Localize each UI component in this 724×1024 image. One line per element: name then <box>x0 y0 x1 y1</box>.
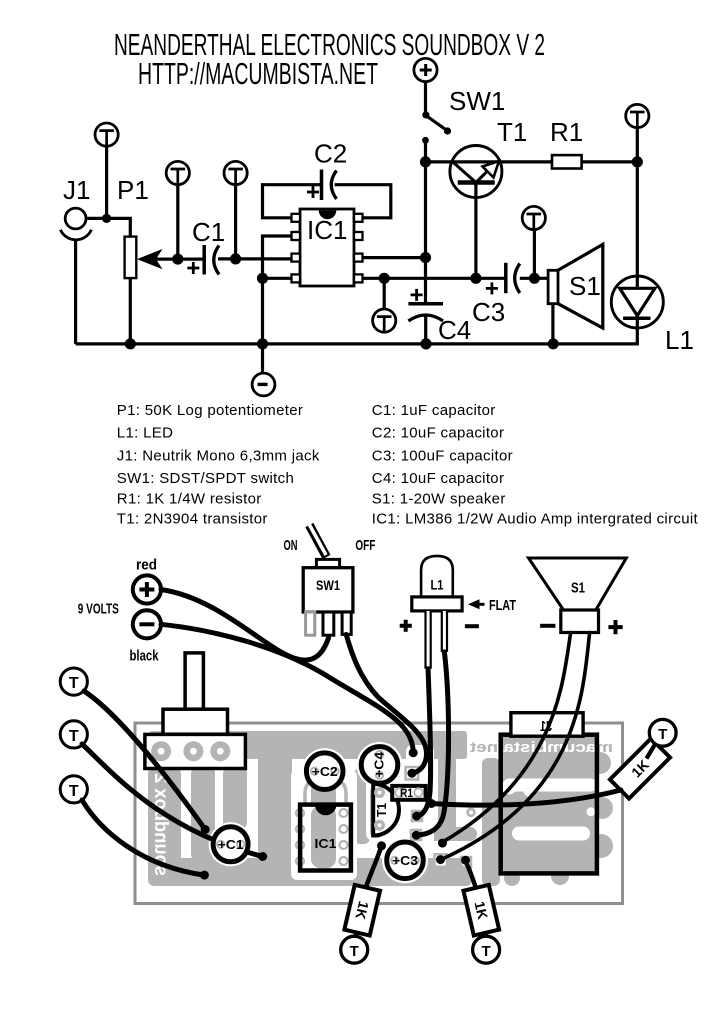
svg-text:T: T <box>69 728 79 745</box>
svg-text:R1: 1K 1/4W resistor: R1: 1K 1/4W resistor <box>117 491 262 508</box>
svg-text:OFF: OFF <box>355 537 375 554</box>
svg-text:C2: C2 <box>314 139 347 169</box>
svg-text:L1: L1 <box>665 325 694 355</box>
svg-text:SW1: SW1 <box>449 86 505 116</box>
svg-text:T: T <box>69 783 79 800</box>
svg-text:+C4: +C4 <box>372 751 387 778</box>
svg-text:T: T <box>350 943 359 960</box>
svg-text:P1: P1 <box>117 175 149 205</box>
svg-text:FLAT: FLAT <box>489 597 516 614</box>
svg-text:S1: S1 <box>569 271 601 301</box>
svg-text:T: T <box>482 943 491 960</box>
svg-text:L1: LED: L1: LED <box>117 425 173 442</box>
svg-text:HTTP://MACUMBISTA.NET: HTTP://MACUMBISTA.NET <box>138 56 378 91</box>
svg-text:C3: C3 <box>472 297 505 327</box>
svg-text:9 VOLTS: 9 VOLTS <box>78 600 119 617</box>
svg-text:C2: 10uF capacitor: C2: 10uF capacitor <box>372 425 505 442</box>
svg-text:R1: R1 <box>550 117 583 147</box>
svg-text:T1: T1 <box>374 803 389 817</box>
svg-text:black: black <box>130 648 159 665</box>
svg-text:S1: S1 <box>571 580 585 597</box>
svg-text:T1: 2N3904 transistor: T1: 2N3904 transistor <box>117 511 268 528</box>
svg-text:IC1: IC1 <box>315 836 337 851</box>
svg-text:C1: 1uF capacitor: C1: 1uF capacitor <box>372 402 496 419</box>
svg-text:T: T <box>658 726 667 743</box>
svg-text:P1: 50K Log potentiometer: P1: 50K Log potentiometer <box>117 402 303 419</box>
svg-text:C3: 100uF capacitor: C3: 100uF capacitor <box>372 448 513 465</box>
svg-text:red: red <box>136 557 157 574</box>
svg-text:R1: R1 <box>400 786 413 800</box>
svg-text:T1: T1 <box>497 117 527 147</box>
svg-text:ON: ON <box>284 537 298 554</box>
svg-text:+C1: +C1 <box>218 837 244 852</box>
svg-text:IC1: IC1 <box>307 215 347 245</box>
svg-text:+C2: +C2 <box>312 764 338 779</box>
svg-text:J1: J1 <box>63 175 90 205</box>
svg-text:L1: L1 <box>431 577 444 593</box>
svg-text:C4: C4 <box>438 315 471 345</box>
svg-text:S1: 1-20W speaker: S1: 1-20W speaker <box>372 491 506 508</box>
svg-text:+C3: +C3 <box>392 853 418 868</box>
svg-text:SW1: SDST/SPDT switch: SW1: SDST/SPDT switch <box>117 470 294 487</box>
svg-text:IC1: LM386 1/2W Audio Amp inte: IC1: LM386 1/2W Audio Amp intergrated ci… <box>372 511 699 528</box>
svg-text:T: T <box>69 675 79 692</box>
svg-text:C1: C1 <box>192 217 225 247</box>
svg-text:C4: 10uF capacitor: C4: 10uF capacitor <box>372 470 505 487</box>
svg-text:SW1: SW1 <box>316 578 340 593</box>
svg-text:J1: Neutrik Mono 6,3mm jack: J1: Neutrik Mono 6,3mm jack <box>117 448 320 465</box>
